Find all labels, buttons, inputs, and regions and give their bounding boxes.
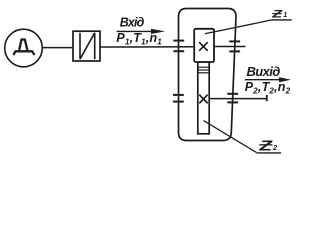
gear Z2 vertical rect [198,62,209,134]
X mark on input shaft [200,43,208,51]
leader line to Z1 [205,20,272,34]
input arrow line [117,30,153,32]
svg-text:2: 2 [272,143,278,152]
coupling box [73,31,100,61]
label Z2 underline [257,152,282,154]
svg-text:Z: Z [258,138,274,154]
label Z2 [258,138,278,154]
svg-text:P2,T2,n2: P2,T2,n2 [245,80,291,96]
label Z1 underline [272,19,292,21]
gearbox housing [179,9,237,141]
output arrow line [245,79,281,81]
gear Z1 rect [194,29,214,62]
wire output shaft [209,98,267,100]
output arrowhead [279,77,291,82]
svg-text:Вхід: Вхід [120,16,145,30]
X mark on output shaft [200,95,207,103]
bearing upper-left [173,41,184,52]
gear Z2 hub hatch lines [198,67,209,73]
motor letter Д [14,40,34,55]
output shaft end tick [266,95,268,101]
leader line to Z2 [204,121,257,153]
bearing lower-right [227,94,238,103]
bearing upper-right [229,41,240,51]
svg-text:Вихід: Вихід [247,64,281,79]
svg-text:P1,T1,n1: P1,T1,n1 [116,31,162,47]
svg-text:Z: Z [271,9,283,21]
input arrowhead [151,29,165,34]
wire shaft motor to coupling [42,47,73,49]
coupling internal symbol [80,33,95,59]
svg-text:1: 1 [283,10,287,19]
bearing lower-left [173,95,184,102]
wire input shaft coupling to gearbox [100,46,195,48]
wire upper shaft right stub [214,46,246,48]
motor M (Д) circle [5,29,43,67]
label Z1 [271,9,287,21]
